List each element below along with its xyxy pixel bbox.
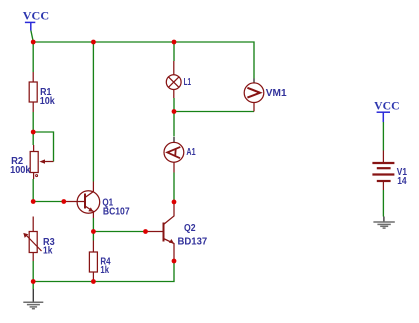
svg-text:L1: L1 bbox=[184, 77, 192, 88]
svg-text:VM1: VM1 bbox=[266, 88, 287, 99]
svg-text:1k: 1k bbox=[43, 246, 53, 257]
svg-text:BD137: BD137 bbox=[178, 237, 208, 248]
svg-text:VCC: VCC bbox=[23, 10, 49, 22]
svg-text:A1: A1 bbox=[186, 147, 196, 158]
svg-text:Q2: Q2 bbox=[184, 223, 196, 234]
svg-text:14: 14 bbox=[397, 176, 407, 187]
svg-text:BC107: BC107 bbox=[103, 207, 130, 218]
svg-text:VCC: VCC bbox=[374, 101, 399, 113]
svg-text:10k: 10k bbox=[40, 96, 56, 107]
svg-text:1k: 1k bbox=[100, 265, 109, 276]
svg-text:100k: 100k bbox=[10, 165, 31, 176]
